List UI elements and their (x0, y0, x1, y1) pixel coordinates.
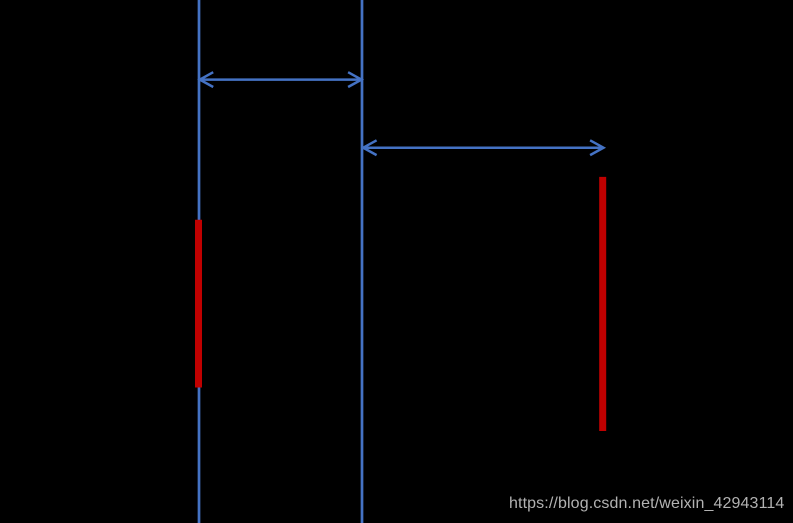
watermark text (509, 495, 784, 513)
wire: right blue vertical reference line (361, 0, 364, 523)
red bar 2 (right) (599, 177, 606, 431)
double-headed arrow 2 (from right line to right red bar) (363, 140, 603, 155)
wire: left blue vertical reference line (198, 0, 201, 523)
double-headed arrow 1 (between the two vertical lines) (200, 72, 362, 87)
red bar 1 (on left vertical line) (195, 220, 202, 388)
